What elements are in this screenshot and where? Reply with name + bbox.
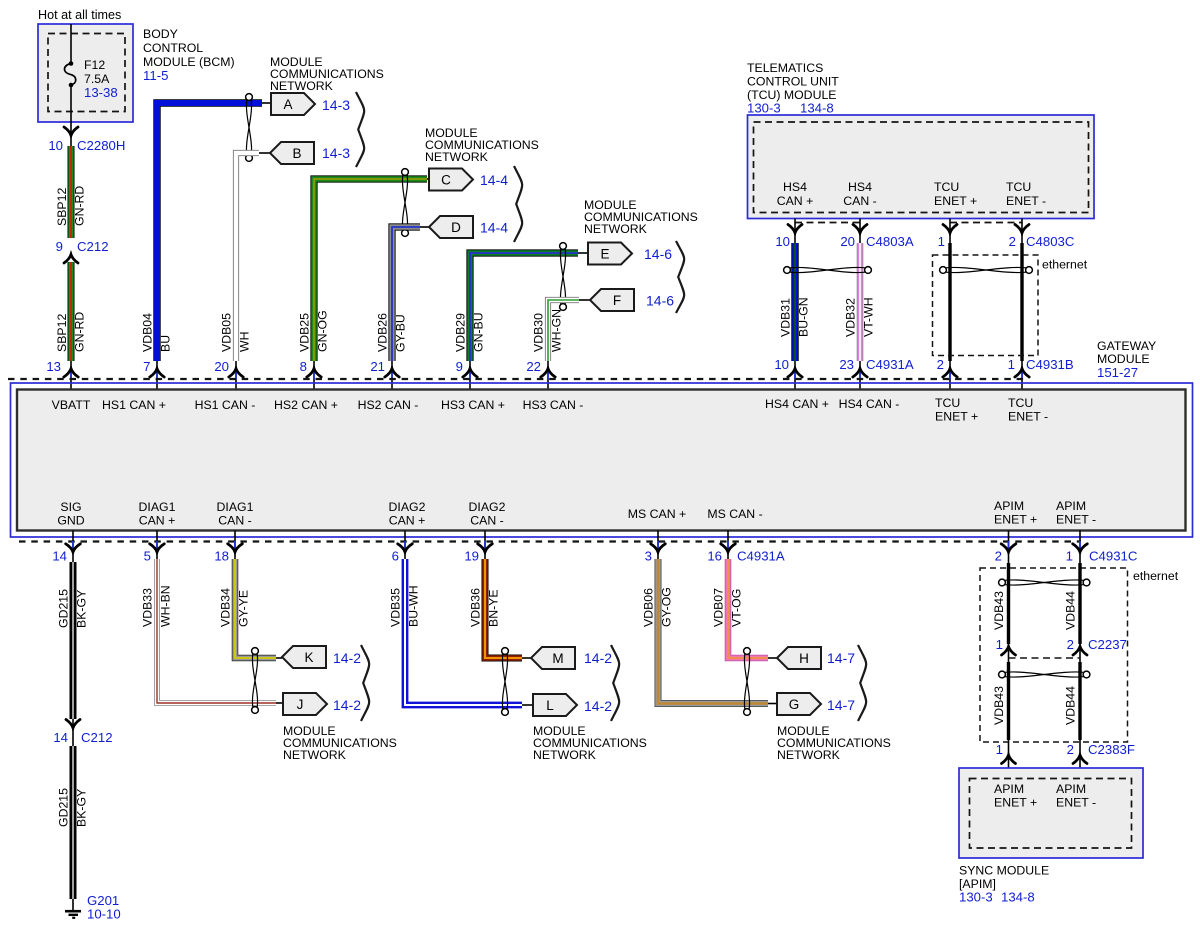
svg-text:G: G (789, 697, 800, 712)
connector C2237 dashed line (1009, 657, 1081, 659)
label SYNC MODULE [APIM] (959, 864, 1049, 905)
wire stub DIAG1 CAN + (156, 531, 158, 566)
SYNC pin label APIM ENET - (1056, 782, 1096, 810)
svg-text:CAN -: CAN - (843, 194, 876, 208)
wire E to flag (578, 252, 588, 254)
svg-text:22: 22 (526, 359, 541, 374)
svg-text:C4931A: C4931A (737, 549, 785, 564)
svg-text:11-5: 11-5 (143, 68, 168, 83)
svg-text:VBATT: VBATT (52, 398, 91, 412)
TCU pin label HS4 CAN - (843, 180, 876, 208)
wire stub into gateway VBATT (70, 361, 72, 390)
twisted pair ethernet lower (999, 671, 1090, 678)
wire VDB04 BU (157, 103, 262, 361)
svg-text:GN-RD: GN-RD (73, 312, 87, 352)
svg-text:VT-OG: VT-OG (730, 589, 744, 627)
wire TCU ENET + (black) (948, 243, 951, 361)
brace M/L (611, 645, 619, 721)
twisted pair M/L (502, 648, 509, 716)
arrow out of TCU pin 2 (1015, 225, 1029, 234)
svg-text:19: 19 (464, 549, 479, 564)
svg-text:151-27: 151-27 (1097, 365, 1138, 380)
wire H to flag (768, 657, 777, 659)
SYNC pin label APIM ENET + (994, 782, 1037, 810)
svg-text:HS1 CAN +: HS1 CAN + (102, 398, 166, 412)
twisted pair E/F (560, 243, 567, 311)
wire D to flag (420, 226, 429, 228)
svg-text:14-7: 14-7 (827, 650, 855, 666)
svg-text:HS4 CAN +: HS4 CAN + (765, 397, 829, 411)
wire stub SIG GND (72, 531, 74, 566)
svg-text:16: 16 (707, 549, 722, 564)
svg-text:DIAG1: DIAG1 (217, 500, 254, 514)
svg-text:WH-GN: WH-GN (550, 309, 564, 352)
svg-text:14-6: 14-6 (644, 246, 672, 262)
arrow into gateway HS2 CAN + (307, 369, 321, 380)
wire stub pin21 (391, 361, 393, 390)
svg-text:VDB26: VDB26 (376, 313, 390, 352)
arrow into gateway TCU ENET - (1015, 369, 1029, 380)
label MCN for H/G (777, 724, 891, 762)
svg-text:VDB36: VDB36 (469, 588, 483, 627)
arrow into C2383F pin 1 (1002, 755, 1016, 764)
wire SBP12 GN-RD segment 1 (68, 146, 75, 238)
svg-text:134-8: 134-8 (800, 101, 834, 116)
svg-text:NETWORK: NETWORK (283, 748, 347, 762)
wire VDB30 WH-GN (548, 300, 579, 361)
svg-text:F12: F12 (84, 58, 105, 72)
svg-text:ENET +: ENET + (994, 796, 1037, 810)
svg-text:GY-YE: GY-YE (237, 590, 251, 627)
svg-text:ENET +: ENET + (994, 513, 1037, 527)
svg-text:1: 1 (1008, 357, 1015, 372)
brace A/B (356, 92, 364, 167)
svg-text:NETWORK: NETWORK (270, 79, 334, 93)
connector C4931B pins (937, 357, 1074, 372)
svg-text:HS1 CAN -: HS1 CAN - (195, 398, 256, 412)
svg-text:1: 1 (996, 742, 1003, 757)
svg-text:VDB33: VDB33 (141, 588, 155, 627)
svg-text:VDB30: VDB30 (532, 313, 546, 352)
svg-text:130-3: 130-3 (959, 890, 993, 905)
svg-text:GD215: GD215 (57, 788, 71, 827)
svg-text:C: C (441, 173, 451, 188)
wire VDB31 BU-GN (791, 243, 798, 361)
flag A (271, 93, 315, 115)
gateway module blue box (11, 383, 1193, 537)
svg-text:APIM: APIM (1056, 499, 1086, 513)
svg-text:10: 10 (775, 234, 790, 249)
svg-text:ENET +: ENET + (935, 410, 978, 424)
svg-text:130-3: 130-3 (747, 101, 781, 116)
svg-text:14-4: 14-4 (480, 220, 508, 236)
svg-text:BN-YE: BN-YE (487, 589, 501, 627)
svg-text:1: 1 (1066, 549, 1073, 564)
svg-text:C212: C212 (77, 239, 109, 254)
arrow out of gateway pin 18 (228, 541, 243, 552)
flag M (531, 647, 575, 669)
wire stub MS CAN - (727, 531, 729, 566)
label MCN for A/B (270, 55, 384, 93)
svg-text:5: 5 (144, 549, 151, 564)
wire M to flag (522, 657, 531, 659)
svg-text:VDB44: VDB44 (1064, 686, 1078, 725)
svg-text:GATEWAY: GATEWAY (1097, 339, 1156, 353)
flag E (588, 243, 632, 265)
label MCN for C/D (425, 126, 539, 164)
wire SBP12 GN-RD segment 2 (68, 262, 75, 361)
wire stub gateway HS4 CAN + (794, 361, 796, 390)
svg-text:C4931A: C4931A (866, 357, 914, 372)
svg-text:2: 2 (995, 549, 1002, 564)
arrow into C2237 pin 2 (1073, 647, 1087, 656)
svg-text:14-2: 14-2 (333, 650, 361, 666)
svg-text:1: 1 (996, 637, 1003, 652)
svg-text:1: 1 (938, 234, 945, 249)
svg-text:C2237: C2237 (1088, 637, 1127, 652)
svg-text:HS2 CAN +: HS2 CAN + (274, 398, 338, 412)
twisted pair K/J (252, 648, 259, 714)
wire K to flag (276, 657, 282, 659)
connector C4803A pins (775, 234, 914, 249)
twisted pair TCU ENET (940, 267, 1033, 274)
svg-text:CAN -: CAN - (218, 514, 251, 528)
svg-text:2: 2 (1067, 742, 1074, 757)
arrow into C212 (bottom) (66, 720, 80, 729)
svg-text:VDB43: VDB43 (992, 686, 1006, 725)
svg-text:GN-RD: GN-RD (73, 186, 87, 226)
flag K (282, 646, 326, 668)
wire VDB36 BN-YE (485, 559, 522, 658)
svg-text:BK-GY: BK-GY (75, 590, 89, 628)
svg-text:VDB32: VDB32 (844, 298, 858, 337)
gateway pin label DIAG2 CAN + (389, 500, 426, 528)
wire link at C2237 + (1008, 644, 1010, 662)
wire link at C212 (72, 719, 74, 746)
svg-text:2: 2 (1067, 637, 1074, 652)
twisted pair ethernet upper (999, 579, 1090, 586)
wire stub gateway TCU ENET - (1021, 361, 1023, 390)
svg-text:21: 21 (370, 359, 385, 374)
wire A to flag (262, 102, 271, 104)
svg-text:A: A (283, 97, 292, 112)
wire stub pin20 (235, 361, 237, 390)
arrow into C2383F pin 2 (1073, 755, 1087, 764)
label MCN for K/J (283, 724, 397, 762)
svg-text:HS3 CAN -: HS3 CAN - (523, 398, 584, 412)
svg-text:6: 6 (392, 549, 399, 564)
svg-text:14-4: 14-4 (480, 172, 508, 188)
arrow out of TCU pin 10 (788, 225, 802, 234)
arrow into gateway HS4 CAN - (853, 369, 867, 380)
svg-text:18: 18 (214, 549, 229, 564)
svg-text:CAN +: CAN + (777, 194, 814, 208)
svg-text:ENET -: ENET - (1056, 796, 1096, 810)
wire B to flag (259, 152, 270, 154)
svg-text:ENET -: ENET - (1008, 410, 1048, 424)
twisted pair C/D (402, 169, 409, 237)
wire GD215 BK-GY segment 1 (70, 562, 77, 719)
svg-text:SYNC MODULE: SYNC MODULE (959, 864, 1049, 878)
svg-text:13: 13 (46, 359, 61, 374)
svg-text:10: 10 (774, 357, 789, 372)
connector C2383F pins (996, 742, 1135, 757)
svg-text:BODY: BODY (143, 27, 178, 41)
svg-text:C2383F: C2383F (1088, 742, 1135, 757)
twisted pair H/G (744, 648, 751, 716)
svg-text:GN-BU: GN-BU (472, 312, 486, 352)
svg-text:APIM: APIM (994, 499, 1024, 513)
flag F (590, 289, 634, 311)
arrow out of gateway pin 5 (150, 541, 165, 552)
wire stub TCU HS4 CAN - (859, 219, 861, 247)
svg-text:HS2 CAN -: HS2 CAN - (358, 398, 419, 412)
svg-text:TCU: TCU (1008, 396, 1033, 410)
wire stub DIAG1 CAN - (234, 531, 236, 566)
svg-text:L: L (546, 698, 554, 713)
wire stub TCU ENET + (949, 219, 951, 247)
wire J to flag (276, 702, 283, 704)
connector C4803C pins (938, 234, 1075, 249)
svg-text:D: D (451, 220, 461, 235)
wire VDB29 GN-BU (470, 253, 578, 361)
svg-text:SBP12: SBP12 (55, 188, 69, 226)
svg-text:HS3 CAN +: HS3 CAN + (441, 398, 505, 412)
gateway module inner box (17, 390, 1186, 531)
svg-text:ENET -: ENET - (1006, 194, 1046, 208)
arrow out of gateway pin 1 (1073, 541, 1088, 552)
fuse F12 label (84, 58, 118, 100)
gateway pin label APIM ENET + (994, 499, 1037, 527)
svg-text:TCU: TCU (934, 180, 959, 194)
flag C (429, 169, 473, 191)
svg-text:CAN +: CAN + (389, 514, 426, 528)
svg-text:WH: WH (238, 332, 252, 353)
label MCN for M/L (533, 724, 647, 762)
arrow into C2237 pin 1 (1002, 647, 1016, 656)
wire VDB32 VT-WH (857, 243, 864, 361)
svg-text:20: 20 (214, 359, 229, 374)
gateway pin label TCU ENET - (1008, 396, 1048, 424)
ethernet dashed box (TCU) (933, 255, 1039, 356)
svg-text:TELEMATICS: TELEMATICS (747, 61, 823, 75)
gateway pin label APIM ENET - (1056, 499, 1096, 527)
svg-text:HS4: HS4 (783, 180, 807, 194)
TCU connector dashed line left pair (795, 222, 860, 224)
connector C4931C pins (995, 549, 1138, 564)
label TELEMATICS CONTROL UNIT (TCU) MODULE (747, 61, 839, 116)
svg-text:C4803A: C4803A (866, 234, 914, 249)
svg-text:VDB06: VDB06 (642, 588, 656, 627)
svg-text:VDB34: VDB34 (219, 588, 233, 627)
svg-text:NETWORK: NETWORK (584, 222, 648, 236)
svg-text:VDB43: VDB43 (992, 591, 1006, 630)
arrow into C2280H (64, 127, 78, 136)
svg-text:SBP12: SBP12 (55, 314, 69, 352)
svg-text:VDB44: VDB44 (1064, 591, 1078, 630)
svg-text:VDB25: VDB25 (298, 313, 312, 352)
wire stub APIM ENET - (1079, 531, 1081, 566)
svg-text:VDB04: VDB04 (141, 313, 155, 352)
SYNC module box (959, 768, 1143, 858)
svg-text:M: M (552, 651, 563, 666)
svg-text:2: 2 (1009, 234, 1016, 249)
wire fuse feed (70, 24, 72, 62)
SYNC dashed border (970, 779, 1132, 849)
connector C2237 pins (996, 637, 1127, 652)
svg-text:GY-OG: GY-OG (660, 587, 674, 627)
svg-text:9: 9 (56, 239, 63, 254)
wire stub TCU HS4 CAN + (794, 219, 796, 247)
svg-text:J: J (297, 697, 304, 712)
fuse box (BCM power) (38, 24, 133, 122)
svg-text:14-2: 14-2 (584, 698, 612, 714)
brace K/J (361, 645, 369, 721)
ground G201 (65, 911, 81, 918)
svg-text:APIM: APIM (1056, 782, 1086, 796)
wire stub DIAG2 CAN - (484, 531, 486, 566)
arrow into gateway TCU ENET + (943, 369, 957, 380)
label MCN for E/F (584, 198, 698, 236)
gateway connector dashed line (top) (8, 378, 1026, 380)
arrow into gateway HS3 CAN - (541, 369, 555, 380)
wire L to flag (522, 704, 533, 706)
svg-text:TCU: TCU (935, 396, 960, 410)
wire stub pin9 (469, 361, 471, 390)
svg-text:B: B (292, 146, 301, 161)
flag J (283, 693, 327, 715)
svg-text:CAN +: CAN + (139, 514, 176, 528)
svg-text:14-2: 14-2 (584, 650, 612, 666)
arrow out of gateway pin 16 (721, 541, 736, 552)
svg-text:GND: GND (57, 514, 84, 528)
svg-text:DIAG1: DIAG1 (139, 500, 176, 514)
svg-text:C4803C: C4803C (1026, 234, 1075, 249)
flag G (777, 693, 821, 715)
svg-text:CAN -: CAN - (470, 514, 503, 528)
wire VDB25 GN-OG (314, 179, 427, 361)
twisted pair HS4 CAN (784, 267, 872, 274)
svg-text:ENET -: ENET - (1056, 513, 1096, 527)
wire C to flag (427, 178, 429, 180)
wire VDB43 lower (1007, 662, 1010, 740)
svg-text:14: 14 (53, 730, 68, 745)
svg-text:C2280H: C2280H (77, 138, 125, 153)
wire stub gateway TCU ENET + (949, 361, 951, 390)
svg-text:14: 14 (52, 549, 67, 564)
wire G to flag (768, 703, 777, 705)
svg-text:SIG: SIG (60, 500, 81, 514)
TCU dashed border (754, 122, 1089, 213)
svg-text:NETWORK: NETWORK (425, 150, 489, 164)
svg-text:C4931B: C4931B (1026, 357, 1074, 372)
flag B (270, 142, 314, 164)
wire stub APIM ENET + (1008, 531, 1010, 566)
flag H (777, 647, 821, 669)
wire VDB44 lower (1078, 662, 1081, 740)
svg-text:MODULE: MODULE (1097, 352, 1150, 366)
wire VDB34 GY-YE (235, 559, 276, 658)
arrow out of gateway pin 14 (66, 541, 81, 552)
arrow out of gateway pin 19 (478, 541, 493, 552)
svg-text:8: 8 (300, 359, 307, 374)
svg-text:BK-GY: BK-GY (75, 789, 89, 827)
svg-text:ethernet: ethernet (1042, 258, 1088, 272)
arrow into gateway HS1 CAN - (229, 369, 243, 380)
svg-text:14-7: 14-7 (827, 697, 855, 713)
svg-text:GY-BU: GY-BU (394, 314, 408, 352)
wire VDB43 upper (1007, 563, 1010, 644)
svg-text:14-3: 14-3 (322, 97, 350, 113)
wire VDB05 WH (236, 153, 259, 361)
svg-text:F: F (613, 293, 621, 308)
svg-text:APIM: APIM (994, 782, 1024, 796)
wire stub pin8 (313, 361, 315, 390)
wire VDB35 BU-WH (405, 559, 522, 705)
connector C2280H pin 10 (48, 138, 125, 153)
svg-text:VDB07: VDB07 (712, 588, 726, 627)
TCU pin label HS4 CAN + (777, 180, 814, 208)
svg-text:NETWORK: NETWORK (777, 748, 841, 762)
wire into SYNC + (1008, 740, 1010, 779)
brace E/F (676, 241, 684, 313)
gateway pin label TCU ENET + (935, 396, 978, 424)
wire VDB06 GY-OG (658, 559, 768, 704)
wire stub TCU ENET - (1021, 219, 1023, 247)
wire link at C2237 - (1079, 644, 1081, 662)
label G201 (87, 893, 121, 922)
svg-text:BU-WH: BU-WH (407, 585, 421, 627)
wire VDB26 GY-BU (392, 227, 420, 361)
svg-text:E: E (600, 247, 609, 262)
svg-text:VT-WH: VT-WH (862, 297, 876, 337)
fuse box dashed border (48, 34, 125, 112)
arrow into C212 (64, 255, 78, 264)
twisted pair A/B (246, 94, 253, 162)
arrow out of gateway pin 2 (1001, 541, 1016, 552)
arrow out of TCU pin 20 (853, 225, 867, 234)
svg-text:10-10: 10-10 (87, 907, 121, 922)
ethernet dashed box (APIM) (980, 568, 1128, 742)
svg-text:14-2: 14-2 (333, 697, 361, 713)
gateway pin label DIAG2 CAN - (469, 500, 506, 528)
TCU pin label TCU ENET + (934, 180, 977, 208)
svg-text:7: 7 (143, 359, 150, 374)
connector C212 pin 14 (53, 730, 112, 745)
svg-text:WH-BN: WH-BN (159, 585, 173, 627)
svg-text:GN-OG: GN-OG (316, 310, 330, 352)
fuse F12 element (64, 61, 75, 87)
wire stub DIAG2 CAN + (404, 531, 406, 566)
wire into SYNC - (1079, 740, 1081, 779)
wire stub pin7 (156, 361, 158, 390)
svg-text:C212: C212 (81, 730, 113, 745)
arrow out of gateway pin 6 (398, 541, 413, 552)
gateway connector dashed line (bottom) (19, 540, 1081, 542)
gateway pin label DIAG1 CAN + (139, 500, 176, 528)
wire VDB33 WH-BN (157, 559, 276, 703)
svg-text:MODULE (BCM): MODULE (BCM) (143, 55, 235, 69)
svg-text:9: 9 (456, 359, 463, 374)
svg-text:2: 2 (937, 357, 944, 372)
wire F to flag (579, 299, 590, 301)
svg-text:14-6: 14-6 (646, 293, 674, 309)
svg-text:CONTROL UNIT: CONTROL UNIT (747, 75, 839, 89)
svg-text:MS CAN +: MS CAN + (628, 507, 686, 521)
arrow into gateway HS3 CAN + (463, 369, 477, 380)
svg-text:H: H (799, 651, 809, 666)
TCU pin label TCU ENET - (1006, 180, 1046, 208)
